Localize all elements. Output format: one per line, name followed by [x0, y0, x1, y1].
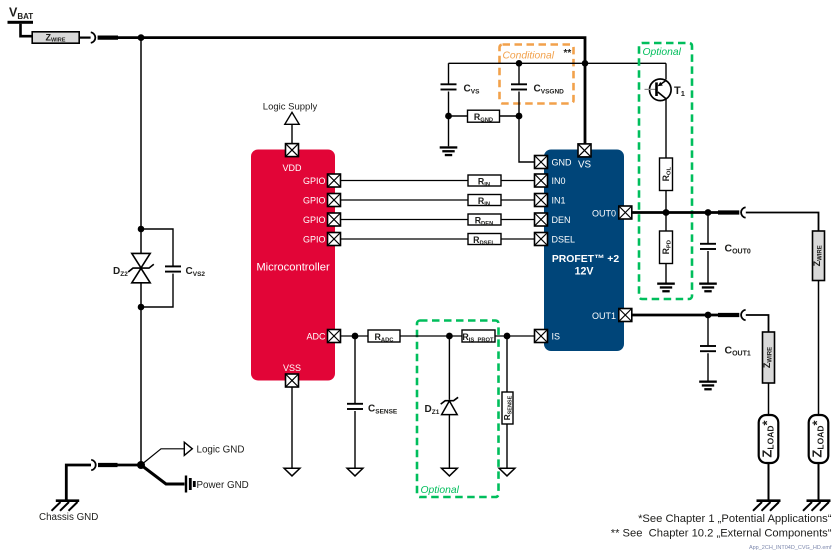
svg-text:Optional: Optional — [643, 47, 682, 58]
wire RIN1 to IN0 — [501, 180, 535, 182]
zener diode DZ1 — [441, 397, 458, 414]
wire RADC to RISPROT — [400, 335, 462, 337]
label GPIO2 — [303, 195, 326, 205]
wire ADC to RADC — [341, 335, 369, 337]
pin IN0 — [535, 174, 548, 187]
label GPIO4 — [303, 234, 326, 244]
wire RDEN to DEN — [501, 219, 535, 221]
wire rail to T1 — [665, 63, 667, 79]
pin GND — [535, 156, 548, 169]
pin VS — [578, 144, 591, 157]
label CVSGND — [534, 84, 565, 96]
wire GPIO2 to RIN2 — [341, 199, 469, 201]
node DZ2 bottom junction — [138, 304, 145, 311]
svg-text:OUT1: OUT1 — [592, 311, 616, 321]
node COUT0 junction — [705, 209, 712, 216]
pin DEN — [535, 213, 548, 226]
wire RGND row — [449, 115, 520, 117]
svg-text:GPIO: GPIO — [303, 234, 326, 244]
wire RDSEL to DSEL — [501, 238, 535, 240]
wire ROL to OUT0 — [665, 191, 667, 213]
wire COUT0 branch — [707, 213, 709, 283]
pin VDD — [286, 144, 299, 157]
wire GPIO1 to RIN1 — [341, 180, 469, 182]
optional dashed box (DZ1) — [417, 321, 499, 498]
label IN0 — [552, 176, 566, 186]
ground (earth) below COUT0 — [699, 283, 717, 293]
svg-text:**: ** — [564, 48, 572, 59]
svg-text:GND: GND — [552, 157, 573, 167]
svg-text:GPIO: GPIO — [303, 176, 326, 186]
svg-text:App_2CH_INT04D_CVG_HD.emf: App_2CH_INT04D_CVG_HD.emf — [749, 545, 832, 551]
pin ADC — [328, 330, 341, 343]
resistor RISPROT — [462, 330, 495, 343]
connector (OUT1 harness) — [741, 310, 746, 321]
impedance ZWIRE (OUT0) — [812, 231, 825, 281]
wire T1 to ROL — [665, 99, 667, 158]
label DEN — [552, 215, 571, 225]
wire supply to VDD — [291, 124, 293, 143]
transistor T1 — [645, 79, 672, 101]
connector (OUT0 harness) — [741, 207, 746, 218]
wire DZ1 branch — [448, 336, 450, 468]
svg-text:** See Chapter 10.2 „External: ** See Chapter 10.2 „External Components… — [611, 528, 832, 540]
svg-text:GPIO: GPIO — [303, 195, 326, 205]
wire RIN2 to IN1 — [501, 199, 535, 201]
node supply junction — [138, 34, 145, 41]
label ADC — [306, 331, 326, 341]
pin DSEL — [535, 233, 548, 246]
footnote line 1 — [638, 513, 832, 525]
wire RSENSE branch — [506, 336, 508, 468]
svg-text:ADC: ADC — [306, 331, 326, 341]
node RGND right — [516, 113, 523, 120]
wire CVS branch — [448, 63, 450, 116]
label PROFET +2 12V — [552, 254, 619, 278]
pin IS — [535, 330, 548, 343]
capacitor COUT1 — [700, 346, 716, 351]
pin IN1 — [535, 194, 548, 207]
logic ground (DZ1) — [442, 468, 458, 476]
label DSEL — [552, 234, 576, 244]
wire battery stub to ZWIRE — [21, 24, 33, 36]
svg-text:Microcontroller: Microcontroller — [256, 262, 330, 274]
label Logic Supply — [263, 101, 318, 112]
wire CSENSE branch — [354, 336, 356, 468]
label GND — [552, 157, 573, 167]
label CVS — [464, 84, 481, 96]
node CVSGND top — [516, 60, 523, 67]
label GPIO1 — [303, 176, 326, 186]
wire COUT1 branch — [707, 315, 709, 381]
pin GPIO2 — [328, 194, 341, 207]
resistor RPD — [660, 231, 673, 264]
svg-text:IN1: IN1 — [552, 195, 566, 205]
label IS — [552, 331, 561, 341]
resistor RGND — [468, 110, 500, 123]
wire VBAT bus to VS — [116, 38, 585, 145]
wire OUT0 net — [632, 211, 740, 214]
figure file name — [749, 545, 832, 551]
logic supply arrow — [285, 112, 299, 124]
ground (earth) below RGND — [440, 146, 458, 156]
label GPIO3 — [303, 215, 326, 225]
svg-text:Optional: Optional — [421, 485, 460, 496]
label Power GND — [197, 480, 249, 491]
wire ZWIRE to ZLOAD right — [818, 281, 820, 416]
svg-text:VDD: VDD — [282, 163, 302, 173]
label Conditional — [503, 48, 572, 62]
wire Power GND branch — [141, 465, 185, 484]
node VS rail tap — [582, 60, 589, 67]
battery VBAT label — [9, 6, 33, 21]
wire star to chassis connector — [98, 464, 141, 467]
label T1 — [674, 85, 685, 98]
capacitor CSENSE — [347, 404, 363, 409]
label VSS — [283, 363, 301, 373]
impedance ZWIRE (supply) — [32, 32, 79, 44]
resistor ROL — [660, 158, 673, 191]
label OUT0 — [592, 208, 616, 218]
svg-text:*See Chapter 1 „Potential Appl: *See Chapter 1 „Potential Applications“ — [638, 513, 832, 525]
resistor RIN (IN1) — [468, 195, 501, 208]
logic ground (VSS) — [284, 468, 300, 476]
footnote line 2 — [611, 528, 832, 540]
svg-text:DEN: DEN — [552, 215, 571, 225]
label Microcontroller — [256, 262, 330, 274]
label Optional (T1) — [643, 47, 682, 58]
capacitor CVSGND — [511, 84, 527, 89]
svg-text:GPIO: GPIO — [303, 215, 326, 225]
connector (chassis harness) — [91, 460, 96, 471]
resistor RIN (IN0) — [468, 175, 501, 188]
wire ZWIRE to connector — [79, 36, 90, 38]
resistor RDEN — [468, 214, 501, 227]
node ground star junction — [137, 461, 145, 469]
svg-text:VS: VS — [578, 160, 592, 171]
resistor RSENSE — [502, 392, 513, 424]
wire OUT1 net — [632, 314, 740, 317]
wire ZWIRE2 to ZLOAD1 — [768, 383, 770, 415]
impedance ZWIRE (OUT1) — [762, 332, 775, 383]
capacitor COUT0 — [700, 244, 716, 249]
label COUT1 — [725, 345, 751, 358]
pin VSS — [286, 374, 299, 387]
pin GPIO3 — [328, 213, 341, 226]
wire connector stub thick — [98, 35, 118, 39]
svg-text:Chassis GND: Chassis GND — [39, 512, 98, 523]
logic ground (RSENSE) — [499, 468, 515, 476]
chassis ground symbol (left) — [52, 501, 80, 511]
wire RISPROT to IS — [495, 335, 535, 337]
svg-text:OUT0: OUT0 — [592, 208, 616, 218]
wire left ground rail — [140, 38, 142, 465]
wire CVS top rail — [449, 62, 667, 64]
wire GPIO4 to RDSEL — [341, 238, 469, 240]
node RGND left — [445, 113, 452, 120]
microcontroller U2 body — [251, 150, 335, 381]
svg-text:Conditional: Conditional — [503, 51, 555, 62]
label CVS2 — [186, 266, 206, 278]
load ZLOAD (OUT1) — [759, 415, 779, 463]
wire OUT0 to RPD — [665, 213, 667, 232]
label DZ2 — [113, 266, 128, 278]
pin GPIO4 — [328, 233, 341, 246]
label COUT0 — [725, 243, 751, 256]
node CSENSE junction — [352, 333, 359, 340]
TVS diode DZ2 — [128, 253, 154, 282]
wire OUT0 to ZWIRE right — [746, 213, 819, 232]
wire to earth ground — [448, 116, 450, 146]
svg-text:IN0: IN0 — [552, 176, 566, 186]
ground (earth) below COUT1 — [699, 381, 717, 391]
wire OUT1 to ZWIRE2 — [746, 315, 769, 332]
label Logic GND — [197, 444, 245, 455]
label IN1 — [552, 195, 566, 205]
label Optional (DZ1) — [421, 485, 460, 496]
resistor RADC — [368, 330, 400, 343]
capacitor CVS2 — [165, 266, 181, 271]
wire ZLOAD1 to chassis — [768, 463, 770, 500]
chassis ground (OUT0 load) — [803, 501, 831, 511]
label Chassis GND — [39, 512, 98, 523]
svg-text:DSEL: DSEL — [552, 234, 576, 244]
svg-text:Logic Supply: Logic Supply — [263, 101, 318, 112]
node DZ1 junction — [446, 333, 453, 340]
svg-text:PROFET™ +2: PROFET™ +2 — [552, 254, 619, 265]
load ZLOAD (OUT0) — [809, 415, 829, 463]
label DZ1 — [425, 404, 440, 416]
pin OUT0 — [619, 206, 632, 219]
node ROL/RPD junction — [663, 209, 670, 216]
wire GPIO3 to RDEN — [341, 219, 469, 221]
wire VSS to logic gnd — [291, 387, 293, 468]
pin GPIO1 — [328, 174, 341, 187]
wire RPD to ground — [665, 264, 667, 283]
label VDD — [282, 163, 302, 173]
chassis ground (OUT1 load) — [753, 501, 781, 511]
svg-text:12V: 12V — [575, 266, 594, 278]
wire chassis drop — [66, 465, 91, 500]
node RSENSE junction — [504, 333, 511, 340]
optional dashed box (T1) — [639, 43, 692, 299]
wire ZLOAD to chassis right — [818, 463, 820, 500]
resistor RDSEL — [468, 234, 501, 247]
conditional dashed box — [500, 45, 574, 104]
logic ground arrow — [184, 442, 192, 455]
svg-text:IS: IS — [552, 331, 561, 341]
node COUT1 junction — [705, 312, 712, 319]
node DZ2 top junction — [138, 226, 145, 233]
svg-text:Power GND: Power GND — [197, 480, 249, 491]
connector (supply harness) — [91, 32, 96, 43]
ground (earth) below RPD — [657, 283, 675, 293]
logic ground (CSENSE) — [347, 468, 363, 476]
wire CVSGND branch — [518, 63, 520, 116]
pin OUT1 — [619, 309, 632, 322]
power ground symbol — [186, 476, 194, 493]
PROFET U1 body — [544, 150, 624, 352]
wire CVS2 branch — [141, 229, 173, 307]
label OUT1 — [592, 311, 616, 321]
svg-text:VSS: VSS — [283, 363, 301, 373]
battery VBAT terminal bar — [8, 21, 34, 24]
label CSENSE — [368, 404, 398, 416]
svg-text:Logic GND: Logic GND — [197, 444, 245, 455]
wire Logic GND branch — [141, 449, 184, 465]
wire CVSGND to GND pin — [519, 116, 535, 162]
capacitor CVS — [441, 84, 457, 89]
label VS — [578, 160, 592, 171]
